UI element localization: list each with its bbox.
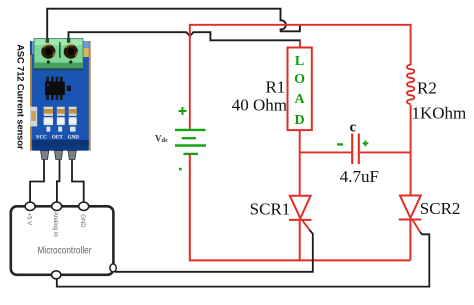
svg-text:SCR2: SCR2 xyxy=(420,199,461,218)
svg-text:4.7uF: 4.7uF xyxy=(340,167,379,186)
resistor R2 coil xyxy=(407,65,414,104)
svg-text:c: c xyxy=(350,120,357,136)
svg-text:L: L xyxy=(295,54,304,69)
MCU port Analog in xyxy=(52,202,62,210)
battery Vdc xyxy=(155,107,206,170)
svg-text:1KOhm: 1KOhm xyxy=(412,103,467,122)
SCR1 thyristor xyxy=(289,196,312,261)
silkscreen pin labels xyxy=(36,136,79,141)
load R1 box xyxy=(288,48,312,131)
SMD components xyxy=(30,107,37,127)
terminal screw 1 xyxy=(41,45,55,59)
wire: sensor pin OUT to MCU Analog in port xyxy=(57,157,60,202)
svg-text:ASC 712 Current sensor: ASC 712 Current sensor xyxy=(16,44,27,150)
svg-text:+5 V: +5 V xyxy=(25,213,31,226)
capacitor C plates xyxy=(351,134,353,165)
svg-text:Vdc: Vdc xyxy=(155,133,168,144)
MCU port +5V xyxy=(25,202,35,210)
MCU port bottom (SCR2 gate) xyxy=(52,271,61,279)
svg-text:O: O xyxy=(294,72,305,87)
svg-text:A: A xyxy=(295,92,306,107)
pin GND xyxy=(68,151,76,160)
wire: red stub into LOAD top xyxy=(299,41,301,48)
wire: SCR1 gate to MCU right port xyxy=(115,230,313,272)
wire: sensor terminal1 top wire to node at battery+ bus (with hop over red bus) xyxy=(47,9,300,41)
wire: R2 bottom to SCR2 anode xyxy=(410,105,412,196)
wire: capacitor horizontal net xyxy=(300,151,411,153)
svg-text:OUT: OUT xyxy=(52,136,64,141)
capacitor plus sign xyxy=(363,141,369,147)
svg-text:SCR1: SCR1 xyxy=(250,199,291,218)
capacitor minus sign xyxy=(337,143,343,145)
svg-text:VCC: VCC xyxy=(36,136,47,141)
pin OUT xyxy=(55,151,63,160)
sensor chip U1 xyxy=(46,77,62,101)
terminal block xyxy=(34,39,83,69)
pin VCC xyxy=(41,151,49,160)
ACS712 sensor module xyxy=(30,38,91,159)
wire: SCR2 gate to MCU bottom port xyxy=(57,232,430,286)
wire: sensor pin GND to MCU GND port xyxy=(72,157,84,202)
dark navy band xyxy=(32,140,89,146)
terminal screw 2 xyxy=(64,45,78,59)
microcontroller box xyxy=(11,206,114,274)
wire: LOAD bottom to SCR1 anode xyxy=(299,130,301,196)
wire: red battery+ bus from battery top up and right to R2 top xyxy=(190,25,411,130)
svg-text:D: D xyxy=(295,113,305,128)
svg-text:R1: R1 xyxy=(265,77,285,96)
svg-text:GND: GND xyxy=(79,214,85,228)
svg-text:Microcontroller: Microcontroller xyxy=(38,246,93,257)
SCR2 thyristor xyxy=(399,196,422,261)
wire: sensor terminal2 to LOAD top (with dip crossover at battery wire) xyxy=(69,32,300,43)
svg-text:R2: R2 xyxy=(417,79,437,98)
svg-text:40 Ohm: 40 Ohm xyxy=(232,96,287,115)
MCU port GND xyxy=(79,202,89,210)
svg-text:Analog in: Analog in xyxy=(52,212,58,237)
MCU port right (SCR1 gate) xyxy=(110,264,116,272)
svg-text:GND: GND xyxy=(68,136,80,141)
wire: sensor pin VCC to MCU +5V port xyxy=(30,157,44,202)
wire: red bottom bus from battery- to SCR2 cathode xyxy=(190,154,411,261)
